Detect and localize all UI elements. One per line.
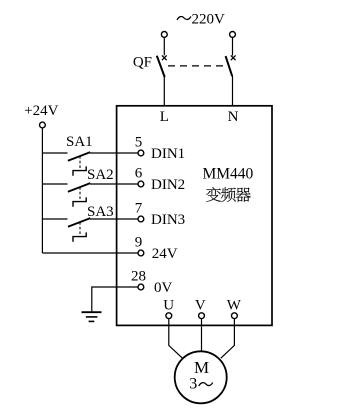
- svg-text:7: 7: [135, 201, 143, 217]
- svg-text:MM440: MM440: [202, 166, 253, 183]
- svg-text:0V: 0V: [154, 280, 173, 296]
- svg-text:5: 5: [135, 135, 143, 151]
- svg-text:W: W: [227, 298, 242, 314]
- svg-text:24V: 24V: [152, 246, 178, 262]
- svg-text:L: L: [160, 109, 169, 125]
- svg-text:9: 9: [135, 235, 143, 251]
- svg-text:SA3: SA3: [87, 204, 114, 220]
- svg-text:220V: 220V: [192, 12, 226, 28]
- svg-text:SA1: SA1: [66, 134, 93, 150]
- svg-text:3: 3: [189, 376, 197, 393]
- svg-text:N: N: [228, 109, 239, 125]
- svg-text:+24V: +24V: [24, 103, 58, 119]
- svg-text:DIN3: DIN3: [151, 212, 185, 228]
- svg-text:6: 6: [135, 166, 143, 182]
- svg-text:DIN2: DIN2: [151, 177, 185, 193]
- svg-text:28: 28: [131, 269, 146, 285]
- svg-text:M: M: [194, 358, 209, 377]
- svg-text:DIN1: DIN1: [151, 146, 185, 162]
- svg-text:SA2: SA2: [87, 167, 114, 183]
- svg-text:QF: QF: [133, 55, 152, 71]
- svg-text:V: V: [195, 298, 206, 314]
- svg-text:U: U: [163, 298, 174, 314]
